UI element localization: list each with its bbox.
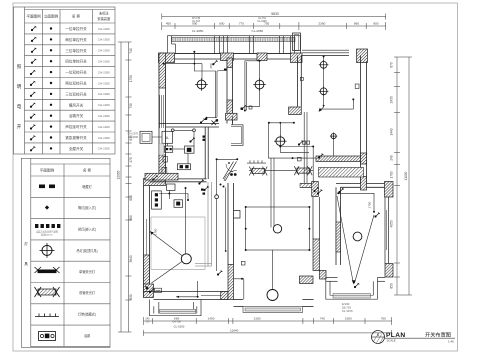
wall hatch right mid 1 — [361, 153, 367, 164]
svg-text:AL: AL — [165, 136, 169, 140]
wall hatch NW corner — [159, 53, 175, 63]
svg-text:770: 770 — [239, 21, 244, 25]
wall hatch top pier 1 — [221, 53, 234, 61]
svg-text:1400: 1400 — [208, 317, 215, 321]
svg-text:CH-1370: CH-1370 — [128, 132, 139, 136]
switch — [354, 283, 360, 288]
switch — [31, 59, 37, 64]
ceiling lamp living south — [267, 290, 278, 301]
small lamp hallway — [215, 195, 219, 199]
junction — [223, 186, 225, 188]
svg-text:1750: 1750 — [129, 75, 133, 82]
glaze piece under meter boxes — [159, 144, 164, 156]
wire — [352, 99, 354, 109]
wire — [323, 68, 325, 88]
socket — [300, 77, 303, 80]
svg-text:630: 630 — [129, 294, 133, 300]
svg-text:1750: 1750 — [153, 228, 157, 235]
wire — [268, 123, 270, 158]
step in living west wall — [234, 211, 241, 219]
L-wall right of corridor top — [231, 125, 243, 146]
wire — [168, 190, 170, 199]
wall between room2 and top-right room — [296, 56, 298, 107]
svg-text:安装高度: 安装高度 — [97, 16, 111, 21]
wall between room1 and room2 — [226, 61, 228, 124]
junction — [187, 199, 189, 201]
svg-text:单管荧光灯: 单管荧光灯 — [79, 269, 96, 274]
door swing + switch cluster — [223, 162, 237, 182]
wire — [337, 196, 353, 283]
svg-text:CH-1300: CH-1300 — [98, 136, 110, 140]
wall hatch left lower — [144, 255, 150, 288]
sw bedroom bed outline (gray) — [151, 217, 205, 270]
t2 r6 symbol — [35, 287, 60, 297]
svg-text:2450: 2450 — [390, 96, 394, 103]
ceiling lamp NE room upper — [319, 60, 329, 70]
svg-text:11640: 11640 — [230, 329, 239, 333]
svg-text:声控延时开关: 声控延时开关 — [65, 124, 87, 129]
wire — [216, 71, 218, 117]
ceiling lamp bedroom NW — [195, 78, 208, 91]
junction — [323, 105, 325, 107]
living room loop — [246, 207, 310, 250]
bottom dim chain — [144, 320, 392, 322]
distribution box AL — [162, 131, 173, 143]
junction — [268, 122, 270, 124]
svg-text:名 称: 名 称 — [72, 14, 81, 19]
wall hatch left upper — [159, 53, 166, 88]
wire in bottom wall area — [176, 281, 198, 297]
hall box — [167, 184, 175, 190]
wall hatch hall south 2 — [320, 271, 327, 280]
svg-text:开关布置图: 开关布置图 — [425, 331, 451, 339]
wall hatch right mid 2 — [361, 177, 367, 191]
switch — [30, 125, 36, 130]
corridor wires — [268, 147, 316, 184]
svg-text:240: 240 — [390, 155, 394, 161]
svg-text:450: 450 — [166, 21, 171, 25]
wall hatch SE NE corner — [385, 182, 394, 198]
kitchen box AL — [165, 146, 173, 152]
hall box 2 — [174, 200, 183, 208]
svg-text:1750: 1750 — [368, 201, 372, 208]
svg-text:CL:1070: CL:1070 — [342, 309, 353, 313]
switch — [313, 187, 319, 192]
lower-left wall — [144, 186, 150, 298]
wall hatch kitchen south — [145, 173, 178, 180]
switch — [317, 190, 323, 195]
junction — [308, 206, 310, 208]
switch — [338, 188, 344, 193]
switch — [374, 213, 380, 218]
wire — [245, 61, 260, 111]
wire — [279, 123, 281, 137]
top dim total line — [162, 16, 386, 18]
switch — [30, 146, 36, 151]
wire — [259, 61, 261, 80]
svg-text:双管荧光灯: 双管荧光灯 — [79, 290, 96, 295]
junction — [259, 60, 261, 62]
wall hatch SW corner — [144, 284, 154, 298]
wire — [216, 199, 218, 271]
fluorescent lamps in corridor — [249, 166, 313, 175]
svg-text:未标注: 未标注 — [99, 11, 109, 16]
wall hatch SE corner — [385, 264, 393, 278]
switch — [318, 154, 324, 159]
corridor hatched bar — [319, 168, 364, 178]
t2 r2 symbol — [45, 205, 49, 209]
junction — [308, 228, 310, 230]
svg-text:3160: 3160 — [254, 317, 261, 321]
left wall — [159, 53, 166, 179]
wire — [338, 193, 374, 211]
wire — [269, 122, 294, 124]
switch — [189, 138, 195, 143]
junction — [193, 63, 195, 65]
svg-text:CH-1300: CH-1300 — [98, 60, 110, 64]
svg-text:5830: 5830 — [271, 12, 279, 16]
svg-text:CL-2950: CL-2950 — [192, 29, 204, 33]
wire — [185, 188, 187, 254]
wire — [245, 62, 247, 111]
wall hatch SE left — [336, 222, 341, 252]
wall hatch top pier 2 — [257, 53, 267, 61]
right wall upper — [360, 56, 362, 184]
junction — [293, 122, 295, 124]
switch — [298, 141, 304, 146]
switch — [198, 180, 204, 185]
svg-text:CH-1300: CH-1300 — [98, 125, 110, 129]
svg-text:CH-1300: CH-1300 — [98, 27, 110, 31]
sw window bay — [150, 300, 202, 316]
svg-text:CH-1300: CH-1300 — [98, 114, 110, 118]
svg-text:筒灯(嵌入式): 筒灯(嵌入式) — [78, 205, 96, 210]
junction — [323, 56, 325, 58]
wire — [234, 279, 244, 300]
control stack box — [152, 191, 162, 209]
wire — [272, 250, 274, 290]
switch — [241, 105, 247, 110]
svg-text:740: 740 — [129, 48, 133, 54]
svg-text:760: 760 — [381, 317, 386, 321]
svg-text:三位双控开关: 三位双控开关 — [65, 91, 87, 96]
svg-text:两位单控开关: 两位单控开关 — [65, 37, 87, 42]
svg-text:吊灯(吸顶灯具): 吊灯(吸顶灯具) — [76, 248, 97, 253]
living bottom wall + window — [234, 300, 314, 307]
t2 r5 symbol — [35, 267, 60, 273]
svg-text:600: 600 — [129, 195, 133, 201]
wall hatch left mid — [159, 155, 166, 179]
svg-text:800: 800 — [373, 21, 378, 25]
svg-text:CH-730: CH-730 — [172, 320, 181, 323]
ceiling lamp NE room lower — [319, 87, 329, 97]
svg-text:电: 电 — [17, 103, 22, 109]
ceiling lamp bedroom SW — [181, 254, 191, 264]
junction — [193, 51, 195, 53]
junction — [245, 228, 247, 230]
wire — [216, 159, 218, 195]
junction — [236, 158, 238, 160]
switch — [30, 136, 36, 141]
svg-text:CL-1600: CL-1600 — [174, 325, 185, 329]
svg-text:CH-1300: CH-1300 — [98, 81, 110, 85]
junction — [216, 158, 218, 160]
sw bedroom closet (gray) — [195, 182, 212, 266]
t2 r3 symbol — [35, 224, 60, 228]
wire — [273, 158, 275, 227]
switch — [30, 70, 36, 75]
ceiling lamp dining — [274, 135, 287, 148]
kitchen box range — [185, 146, 194, 153]
svg-text:暗藏灯: 暗藏灯 — [82, 184, 92, 189]
switch — [31, 26, 37, 31]
switch — [217, 271, 223, 276]
sw bedroom top wall — [150, 178, 207, 180]
svg-text:紧急报警开关: 紧急报警开关 — [65, 135, 87, 140]
wall hatch mid-south — [228, 265, 234, 300]
room1 bottom wall — [159, 124, 219, 128]
svg-text:CH-1300: CH-1300 — [98, 103, 110, 107]
svg-text:灯带(暗藏式): 灯带(暗藏式) — [78, 312, 96, 317]
svg-text:全屋开关: 全屋开关 — [69, 146, 84, 151]
junction — [245, 206, 247, 208]
wire — [201, 64, 203, 81]
SE bedroom top wall — [300, 184, 385, 188]
switch — [212, 60, 218, 65]
wall hatch hall south 1 — [300, 276, 314, 284]
washer box — [162, 167, 167, 173]
right dim lines — [396, 57, 398, 295]
junction — [185, 187, 187, 189]
wire — [355, 215, 375, 283]
duct shaft — [293, 33, 301, 51]
switch — [149, 288, 155, 293]
svg-text:四位单控开关: 四位单控开关 — [65, 59, 87, 64]
junction — [337, 192, 339, 194]
SE bedroom left wall — [335, 187, 337, 265]
junction — [220, 184, 222, 186]
top-right wall with window — [302, 50, 349, 55]
wire — [216, 116, 218, 119]
svg-text:名 称: 名 称 — [83, 168, 92, 173]
svg-text:860: 860 — [354, 21, 359, 25]
svg-text:870: 870 — [390, 62, 394, 68]
wire — [270, 158, 272, 228]
junction — [245, 249, 247, 251]
svg-text:470: 470 — [129, 157, 133, 163]
svg-text:250: 250 — [209, 63, 213, 68]
table1 vertical strip text — [17, 64, 22, 130]
wire — [320, 108, 353, 110]
svg-text:CL-2950: CL-2950 — [252, 29, 264, 33]
wall hatch room2 corner — [289, 107, 302, 115]
wire — [194, 52, 215, 117]
switch — [30, 103, 36, 108]
junction — [308, 249, 310, 251]
svg-text:CH-1300: CH-1300 — [98, 38, 110, 42]
switch — [200, 119, 206, 124]
svg-text:170: 170 — [145, 320, 150, 323]
wall hatch hall north — [312, 182, 319, 197]
wire — [306, 112, 308, 184]
t2 r7 symbol — [35, 314, 59, 317]
socket — [355, 84, 359, 89]
junction — [163, 63, 165, 65]
svg-text:1:46: 1:46 — [448, 339, 454, 343]
wire — [217, 69, 225, 72]
wall hatch corridor — [316, 156, 361, 162]
svg-text:SCALE: SCALE — [387, 339, 396, 343]
wire — [150, 232, 183, 257]
socket — [249, 106, 252, 109]
junction — [373, 211, 375, 213]
switch — [30, 81, 36, 86]
junction — [352, 98, 354, 100]
svg-text:4050: 4050 — [390, 220, 394, 227]
svg-text:立面图例: 立面图例 — [44, 14, 59, 19]
arrows — [150, 108, 356, 285]
small lamp corridor east — [330, 133, 337, 140]
junction — [279, 122, 281, 124]
svg-text:850: 850 — [390, 283, 394, 289]
bottom wall left section — [144, 292, 229, 300]
SE bedroom bottom wall — [326, 277, 338, 279]
comb ticks above corridor lamp — [247, 160, 266, 163]
svg-text:CH-1300: CH-1300 — [98, 92, 110, 96]
svg-text:射灯(嵌入式): 射灯(嵌入式) — [78, 227, 96, 232]
svg-text:600: 600 — [219, 21, 224, 25]
junction — [168, 193, 170, 195]
ceiling lamp bedroom SE — [353, 232, 362, 241]
wall hatch partition mid — [227, 100, 233, 115]
wire — [225, 188, 227, 252]
ceiling lamp bedroom N — [253, 78, 266, 91]
svg-text:三位单控开关: 三位单控开关 — [65, 48, 87, 53]
top bay window band — [168, 36, 301, 54]
svg-text:740: 740 — [320, 317, 325, 321]
svg-text:11090: 11090 — [404, 171, 408, 180]
svg-text:一位双控开关: 一位双控开关 — [65, 70, 87, 75]
wire — [246, 89, 259, 106]
wall from room1 corner down — [204, 127, 206, 179]
top dim chain line — [162, 25, 386, 27]
switch — [152, 176, 158, 181]
wall hatch NE corner — [357, 49, 368, 63]
SE bedroom right wall — [384, 197, 386, 264]
switch — [31, 48, 37, 53]
svg-text:5: 5 — [377, 333, 379, 337]
wire — [152, 262, 183, 284]
wall hatch bath — [226, 113, 238, 120]
junction — [225, 250, 227, 252]
wire — [303, 112, 305, 184]
switch — [30, 92, 36, 97]
wire — [280, 146, 309, 153]
svg-text:2360: 2360 — [318, 21, 325, 25]
wire — [333, 140, 335, 157]
socket living — [241, 261, 245, 265]
svg-text:浴霸开关: 浴霸开关 — [69, 113, 84, 118]
svg-text:1440: 1440 — [390, 128, 394, 135]
wall hatch partition top — [227, 58, 233, 68]
kitchen socket box — [177, 164, 190, 170]
svg-text:3640: 3640 — [129, 255, 133, 262]
svg-text:浴霸: 浴霸 — [84, 333, 90, 338]
svg-text:CH-1300: CH-1300 — [98, 70, 110, 74]
svg-text:灯: 灯 — [24, 241, 28, 246]
junction dots — [163, 51, 376, 252]
wall hatch living east — [313, 239, 320, 271]
wall hatch hall lintel — [300, 184, 313, 188]
wire — [321, 95, 324, 110]
socket — [298, 157, 302, 161]
svg-text:CL-1920: CL-1920 — [257, 20, 267, 23]
svg-text:CH-1300: CH-1300 — [98, 147, 110, 151]
svg-text:CH-1300: CH-1300 — [98, 49, 110, 53]
switch — [31, 37, 37, 42]
left dim lines — [120, 42, 122, 332]
wall hatch bottom pier — [221, 292, 228, 300]
svg-text:两位双控开关: 两位双控开关 — [65, 81, 87, 86]
ceiling lamp living center — [273, 225, 281, 233]
socket — [303, 141, 306, 144]
svg-text:860: 860 — [129, 215, 133, 221]
svg-text:平面图例: 平面图例 — [26, 14, 41, 19]
table1 header text — [26, 11, 111, 22]
svg-text:1700: 1700 — [390, 171, 394, 178]
switch — [203, 186, 209, 191]
wall hatch top pier 3 — [291, 53, 303, 63]
table1 rows: symbols + dots + names + heights — [65, 26, 87, 151]
wall hatch left step — [144, 179, 166, 186]
svg-text:平面图例: 平面图例 — [40, 168, 55, 173]
switch — [30, 114, 36, 119]
t2 r4 symbol — [40, 243, 55, 258]
t2 r1 symbol — [39, 185, 55, 189]
main top wall — [159, 54, 303, 60]
svg-text:暖风开关: 暖风开关 — [69, 102, 84, 107]
svg-text:1600: 1600 — [345, 317, 352, 321]
wire — [164, 63, 203, 65]
svg-text:CL-1600: CL-1600 — [128, 135, 139, 139]
svg-text:730: 730 — [129, 103, 133, 109]
t2 r8 symbol — [39, 332, 56, 341]
wire — [159, 194, 188, 201]
black wall marks — [203, 136, 206, 138]
SE bay window — [326, 278, 378, 300]
meter box outside — [140, 131, 152, 143]
dim texts — [145, 12, 386, 332]
svg-text:一位单控开关: 一位单控开关 — [65, 26, 87, 31]
wire — [323, 57, 325, 62]
svg-text:12065: 12065 — [117, 170, 121, 179]
wire — [217, 158, 238, 160]
svg-text:CL-710: CL-710 — [192, 20, 201, 23]
socket — [307, 141, 310, 144]
svg-text:具: 具 — [24, 261, 28, 266]
bottom total line — [144, 332, 392, 334]
